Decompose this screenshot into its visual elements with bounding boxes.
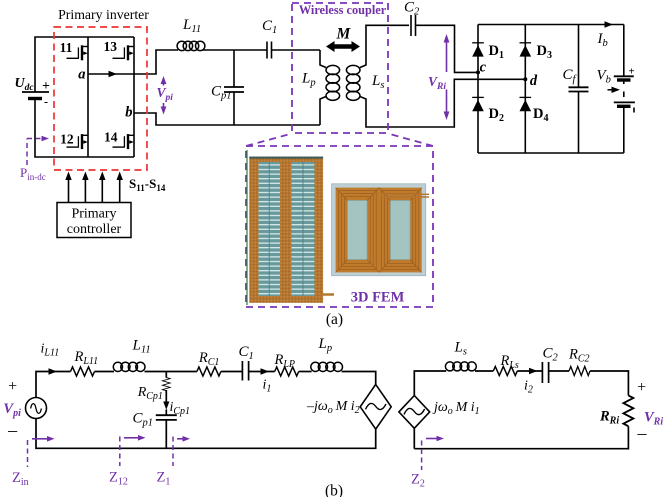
svg-text:L11: L11: [132, 338, 151, 356]
svg-text:C2: C2: [404, 0, 420, 18]
svg-text:Ls: Ls: [371, 73, 384, 91]
svg-text:-: -: [44, 95, 48, 109]
svg-text:Wireless coupler: Wireless coupler: [299, 3, 387, 17]
svg-text:S11-S14: S11-S14: [129, 176, 166, 193]
svg-text:Z1: Z1: [157, 470, 171, 488]
svg-text:Z12: Z12: [109, 470, 128, 488]
svg-text:Cf: Cf: [563, 67, 578, 85]
svg-text:RCp1: RCp1: [137, 385, 163, 402]
svg-text:+: +: [637, 379, 646, 396]
svg-text:Z2: Z2: [411, 472, 425, 490]
svg-text:jωo M i1: jωo M i1: [432, 400, 480, 417]
svg-text:Pin-dc: Pin-dc: [20, 165, 46, 182]
svg-text:14: 14: [104, 130, 118, 145]
svg-text:+: +: [628, 66, 634, 78]
svg-text:(b): (b): [325, 483, 343, 497]
svg-text:C2: C2: [543, 346, 559, 364]
svg-text:Vpi: Vpi: [3, 401, 21, 419]
svg-text:D3: D3: [537, 43, 552, 61]
svg-text:Udc: Udc: [15, 76, 35, 93]
svg-text:VRi: VRi: [428, 74, 446, 92]
svg-text:Zin: Zin: [12, 470, 29, 488]
svg-text:C1: C1: [239, 344, 254, 362]
svg-text:13: 13: [103, 39, 117, 54]
svg-text:iL11: iL11: [41, 342, 60, 359]
svg-text:VRi: VRi: [644, 410, 663, 428]
svg-text:–: –: [637, 423, 648, 443]
svg-text:Primary inverter: Primary inverter: [58, 7, 149, 22]
svg-text:b: b: [125, 105, 132, 121]
svg-text:RC1: RC1: [198, 350, 220, 368]
svg-text:L11: L11: [182, 17, 201, 35]
svg-text:3D FEM: 3D FEM: [351, 290, 405, 306]
svg-text:–jωo M i2: –jωo M i2: [306, 399, 360, 416]
svg-text:controller: controller: [67, 222, 122, 237]
svg-text:RRi: RRi: [599, 409, 619, 427]
svg-text:a: a: [78, 67, 85, 83]
svg-text:RLP: RLP: [274, 352, 296, 370]
svg-text:Lp: Lp: [301, 71, 316, 89]
svg-text:M: M: [336, 26, 352, 43]
svg-text:Vpi: Vpi: [157, 85, 174, 103]
svg-text:+: +: [8, 378, 17, 395]
svg-text:RLs: RLs: [500, 353, 519, 371]
svg-text:D4: D4: [533, 106, 548, 124]
svg-text:RL11: RL11: [74, 349, 99, 367]
svg-text:11: 11: [60, 40, 73, 55]
svg-text:Ls: Ls: [454, 340, 467, 358]
svg-text:+: +: [42, 78, 50, 93]
svg-text:Ib: Ib: [597, 31, 608, 49]
svg-text:Lp: Lp: [318, 336, 333, 354]
svg-text:RC2: RC2: [568, 347, 590, 365]
svg-text:C1: C1: [262, 18, 277, 36]
svg-text:Cp1: Cp1: [133, 411, 154, 429]
svg-text:Vb: Vb: [597, 68, 611, 86]
svg-text:(a): (a): [326, 311, 343, 328]
svg-text:d: d: [530, 73, 538, 89]
svg-text:Primary: Primary: [71, 207, 116, 222]
svg-text:i2: i2: [524, 379, 533, 396]
svg-text:D2: D2: [489, 106, 504, 124]
svg-text:c: c: [480, 60, 487, 76]
svg-text:D1: D1: [489, 43, 504, 61]
svg-text:12: 12: [60, 132, 74, 147]
svg-text:i1: i1: [263, 378, 272, 395]
svg-text:iCp1: iCp1: [170, 400, 191, 417]
svg-text:–: –: [7, 420, 18, 440]
